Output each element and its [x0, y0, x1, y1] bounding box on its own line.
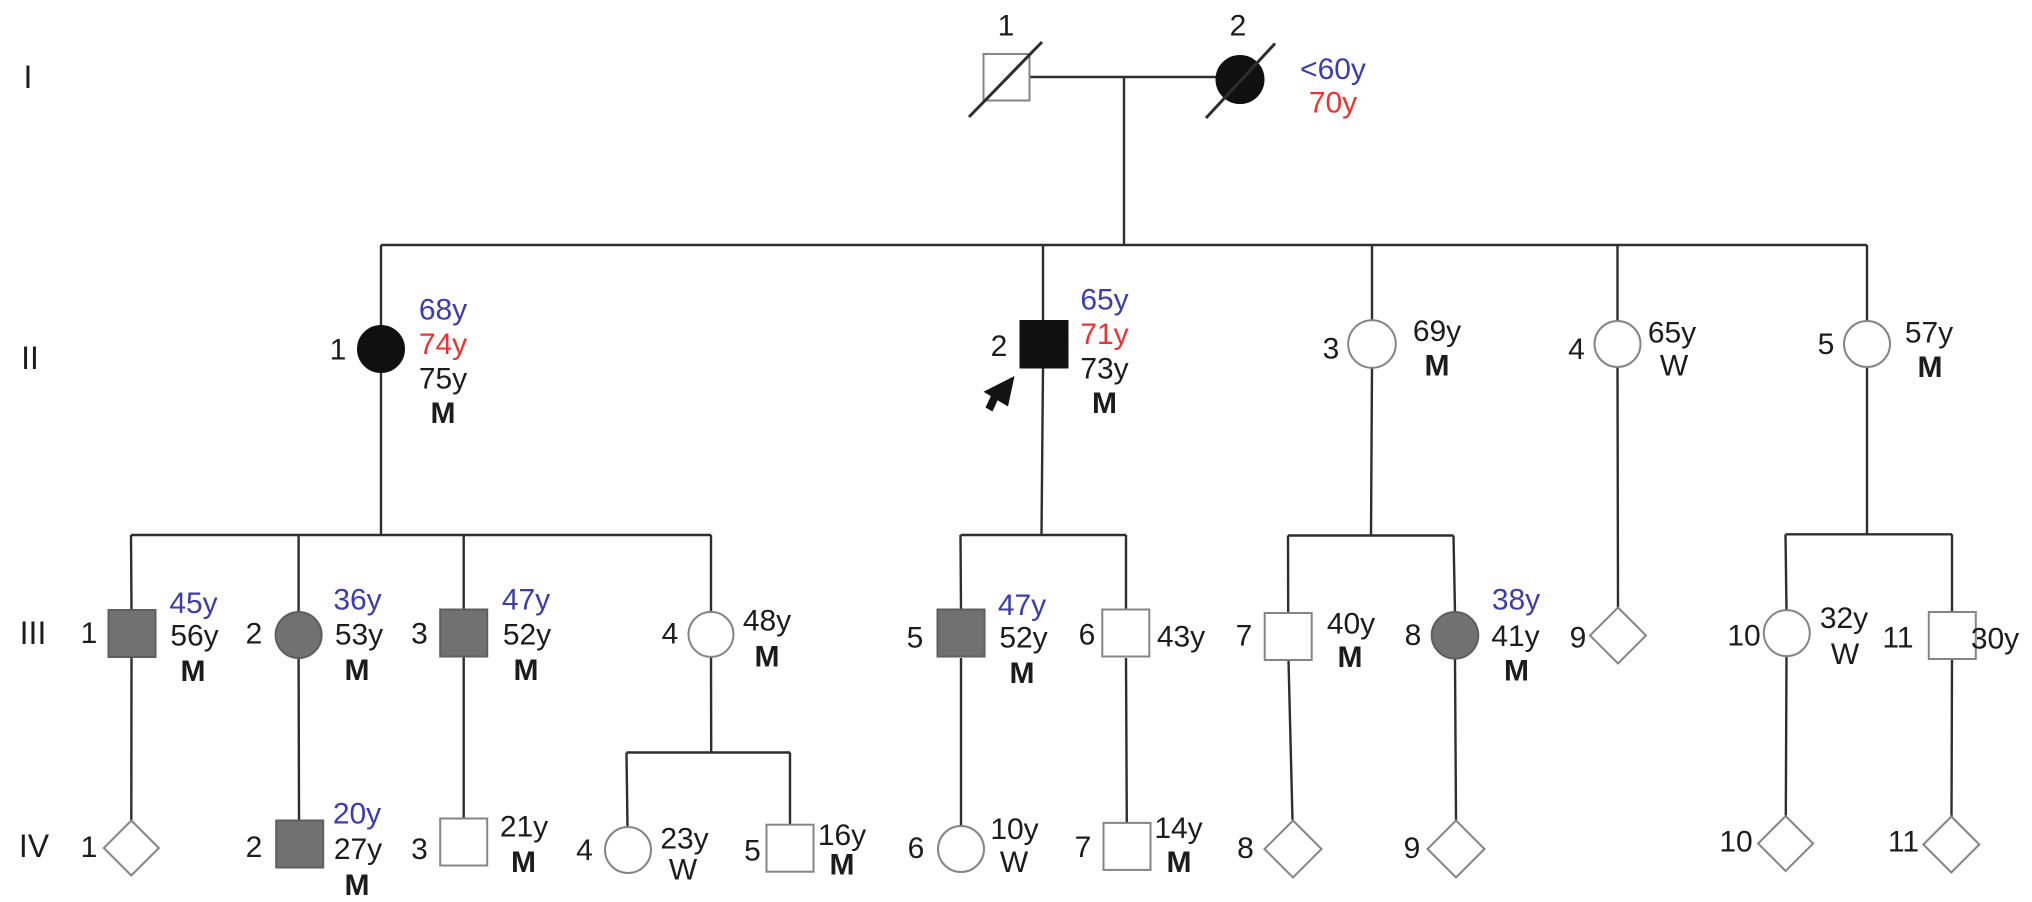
wire drop to III-10 — [1786, 534, 1787, 611]
svg-text:14y: 14y — [1154, 812, 1202, 845]
proband arrow — [984, 376, 1015, 412]
person II-5 female — [1844, 321, 1890, 367]
svg-text:M: M — [830, 849, 855, 882]
person IV-4 female — [605, 827, 651, 873]
svg-text:M: M — [1010, 657, 1035, 690]
svg-text:1: 1 — [81, 831, 98, 864]
person III-3 affected male — [440, 610, 487, 657]
svg-text:27y: 27y — [334, 833, 382, 866]
svg-text:III: III — [20, 615, 47, 651]
svg-text:32y: 32y — [1820, 602, 1868, 635]
wire III-8 to IV-9 — [1455, 659, 1456, 820]
svg-text:M: M — [514, 654, 539, 687]
person III-1 affected male — [109, 610, 156, 657]
wire descent from II-3 — [1371, 367, 1372, 536]
svg-text:16y: 16y — [818, 819, 866, 852]
wire drop to III-5 — [959, 535, 962, 610]
svg-text:21y: 21y — [500, 811, 548, 844]
person II-2 affected male proband — [1020, 321, 1068, 369]
wire descent II-4 to III-9 — [1616, 367, 1619, 608]
svg-text:M: M — [1504, 655, 1529, 688]
person IV-3 male — [440, 819, 487, 866]
person IV-5 male — [767, 825, 814, 872]
svg-text:68y: 68y — [419, 294, 467, 327]
svg-text:20y: 20y — [333, 798, 381, 831]
wire descent from I couple — [1123, 77, 1125, 245]
svg-text:45y: 45y — [169, 587, 217, 620]
svg-text:47y: 47y — [502, 584, 550, 617]
svg-text:IV: IV — [19, 828, 50, 864]
wire descent from III-4 — [710, 657, 713, 753]
wire III-7 to IV-8 — [1289, 660, 1293, 820]
svg-text:M: M — [755, 641, 780, 674]
svg-text:57y: 57y — [1905, 317, 1953, 350]
wire drop to II-4 — [1616, 245, 1618, 321]
person IV-6 female — [938, 826, 984, 872]
person I-1 deceased male — [984, 54, 1030, 101]
svg-text:3: 3 — [1323, 333, 1340, 366]
wire sibship bar generation II — [381, 244, 1867, 246]
wire III-3 to IV-3 — [463, 657, 465, 819]
wire sibship bar children of II-2 — [961, 534, 1127, 536]
svg-text:9: 9 — [1570, 622, 1587, 655]
wire III-5 to IV-6 — [960, 658, 962, 827]
svg-text:8: 8 — [1405, 619, 1422, 652]
wire drop to III-2 — [297, 535, 299, 613]
person IV-11 unknown sex — [1923, 817, 1979, 873]
svg-text:52y: 52y — [503, 619, 551, 652]
svg-text:65y: 65y — [1080, 284, 1128, 317]
wire drop to III-4 — [710, 535, 712, 612]
svg-text:M: M — [181, 655, 206, 688]
person IV-8 unknown sex — [1265, 821, 1322, 878]
svg-text:M: M — [431, 397, 456, 430]
svg-text:1: 1 — [81, 617, 98, 650]
svg-text:71y: 71y — [1080, 318, 1128, 351]
svg-text:M: M — [511, 846, 536, 879]
svg-text:7: 7 — [1236, 620, 1253, 653]
svg-text:W: W — [1000, 846, 1029, 879]
svg-text:5: 5 — [907, 622, 924, 655]
svg-text:48y: 48y — [743, 605, 791, 638]
svg-text:4: 4 — [576, 834, 593, 867]
svg-text:11: 11 — [1888, 826, 1919, 859]
svg-text:W: W — [1831, 638, 1860, 671]
person III-8 affected female — [1432, 612, 1479, 659]
svg-text:4: 4 — [1568, 333, 1585, 366]
person III-9 unknown sex — [1590, 608, 1646, 664]
svg-text:II: II — [21, 340, 39, 376]
svg-text:2: 2 — [246, 618, 263, 651]
svg-text:65y: 65y — [1648, 317, 1696, 350]
svg-text:<60y: <60y — [1300, 53, 1366, 86]
svg-text:I: I — [24, 59, 33, 95]
svg-text:M: M — [1918, 351, 1943, 384]
person II-4 female — [1595, 321, 1641, 367]
svg-text:43y: 43y — [1157, 621, 1205, 654]
person IV-10 unknown sex — [1758, 816, 1813, 871]
person III-10 female — [1764, 610, 1810, 656]
wire couple line I-1 to I-2 — [1029, 76, 1216, 78]
svg-text:10y: 10y — [990, 813, 1038, 846]
wire drop to II-2 — [1042, 245, 1044, 321]
svg-text:4: 4 — [662, 618, 679, 651]
wire drop to III-8 — [1454, 536, 1456, 614]
wire descent from II-5 — [1866, 367, 1868, 534]
wire drop to III-11 — [1951, 534, 1953, 612]
svg-text:W: W — [669, 854, 698, 887]
wire drop to III-6 — [1125, 535, 1127, 610]
wire drop to II-3 — [1371, 245, 1373, 321]
person III-4 female — [689, 612, 734, 657]
wire III-11 to IV-11 — [1950, 660, 1953, 818]
svg-text:7: 7 — [1075, 831, 1092, 864]
wire III-6 to IV-7 — [1125, 658, 1128, 823]
wire drop to III-1 — [130, 535, 133, 610]
person II-3 female — [1348, 320, 1396, 368]
wire drop to II-5 — [1866, 245, 1868, 321]
svg-text:47y: 47y — [998, 589, 1046, 622]
person III-6 male — [1102, 610, 1149, 657]
wire sibship bar children of II-1 — [131, 534, 711, 536]
person III-11 male — [1929, 612, 1976, 659]
svg-text:3: 3 — [411, 833, 428, 866]
svg-text:M: M — [1167, 846, 1192, 879]
svg-text:70y: 70y — [1309, 87, 1357, 120]
svg-text:M: M — [1338, 641, 1363, 674]
svg-text:M: M — [345, 869, 370, 902]
wire sibship bar children of III-4 — [627, 751, 791, 753]
wire drop to III-3 — [463, 535, 465, 610]
person IV-2 affected male — [276, 821, 323, 868]
slash I-2 deceased — [1206, 44, 1275, 119]
wire sibship bar children of II-5 — [1786, 533, 1953, 535]
svg-text:10: 10 — [1719, 826, 1752, 859]
slash I-1 deceased — [969, 42, 1042, 117]
svg-text:1: 1 — [998, 10, 1015, 43]
svg-text:11: 11 — [1882, 622, 1913, 655]
wire descent from II-2 — [1042, 368, 1044, 535]
svg-text:74y: 74y — [419, 328, 467, 361]
svg-text:2: 2 — [991, 330, 1008, 363]
svg-text:3: 3 — [411, 618, 428, 651]
svg-text:30y: 30y — [1971, 623, 2019, 656]
svg-text:41y: 41y — [1491, 620, 1539, 653]
svg-text:M: M — [1425, 350, 1450, 383]
svg-text:2: 2 — [1230, 10, 1247, 43]
svg-text:73y: 73y — [1080, 353, 1128, 386]
svg-text:23y: 23y — [660, 823, 708, 856]
svg-text:69y: 69y — [1413, 315, 1461, 348]
svg-text:9: 9 — [1404, 832, 1421, 865]
person II-1 affected female — [358, 326, 405, 373]
svg-text:38y: 38y — [1492, 584, 1540, 617]
wire drop to II-1 — [380, 245, 382, 326]
person III-5 affected male — [938, 610, 985, 657]
person III-2 affected female — [276, 612, 322, 658]
svg-text:5: 5 — [744, 835, 761, 868]
person I-2 affected deceased female — [1216, 56, 1264, 104]
svg-text:M: M — [1092, 387, 1117, 420]
wire sibship bar children of II-3 — [1288, 534, 1454, 536]
wire descent from II-1 — [380, 372, 382, 535]
person III-7 male — [1265, 613, 1312, 660]
svg-text:1: 1 — [330, 334, 347, 367]
svg-text:W: W — [1660, 350, 1689, 383]
wire drop to IV-5 — [789, 753, 791, 826]
person IV-1 unknown sex — [104, 821, 159, 876]
svg-text:56y: 56y — [170, 620, 218, 653]
wire III-2 to IV-2 — [297, 658, 300, 821]
person IV-9 unknown sex — [1428, 821, 1485, 878]
svg-text:6: 6 — [908, 832, 925, 865]
svg-text:6: 6 — [1079, 619, 1096, 652]
wire III-1 to IV-1 — [130, 657, 133, 821]
svg-text:10: 10 — [1727, 620, 1760, 653]
wire III-10 to IV-10 — [1785, 656, 1788, 816]
svg-text:M: M — [345, 654, 370, 687]
svg-text:52y: 52y — [999, 622, 1047, 655]
svg-text:75y: 75y — [419, 363, 467, 396]
svg-text:53y: 53y — [335, 619, 383, 652]
wire drop to III-7 — [1287, 536, 1290, 614]
svg-text:36y: 36y — [333, 584, 381, 617]
svg-text:2: 2 — [246, 831, 263, 864]
person IV-7 male — [1104, 823, 1151, 870]
wire drop to IV-4 — [627, 753, 628, 829]
svg-text:40y: 40y — [1327, 608, 1375, 641]
svg-text:5: 5 — [1818, 328, 1835, 361]
svg-text:8: 8 — [1237, 832, 1254, 865]
